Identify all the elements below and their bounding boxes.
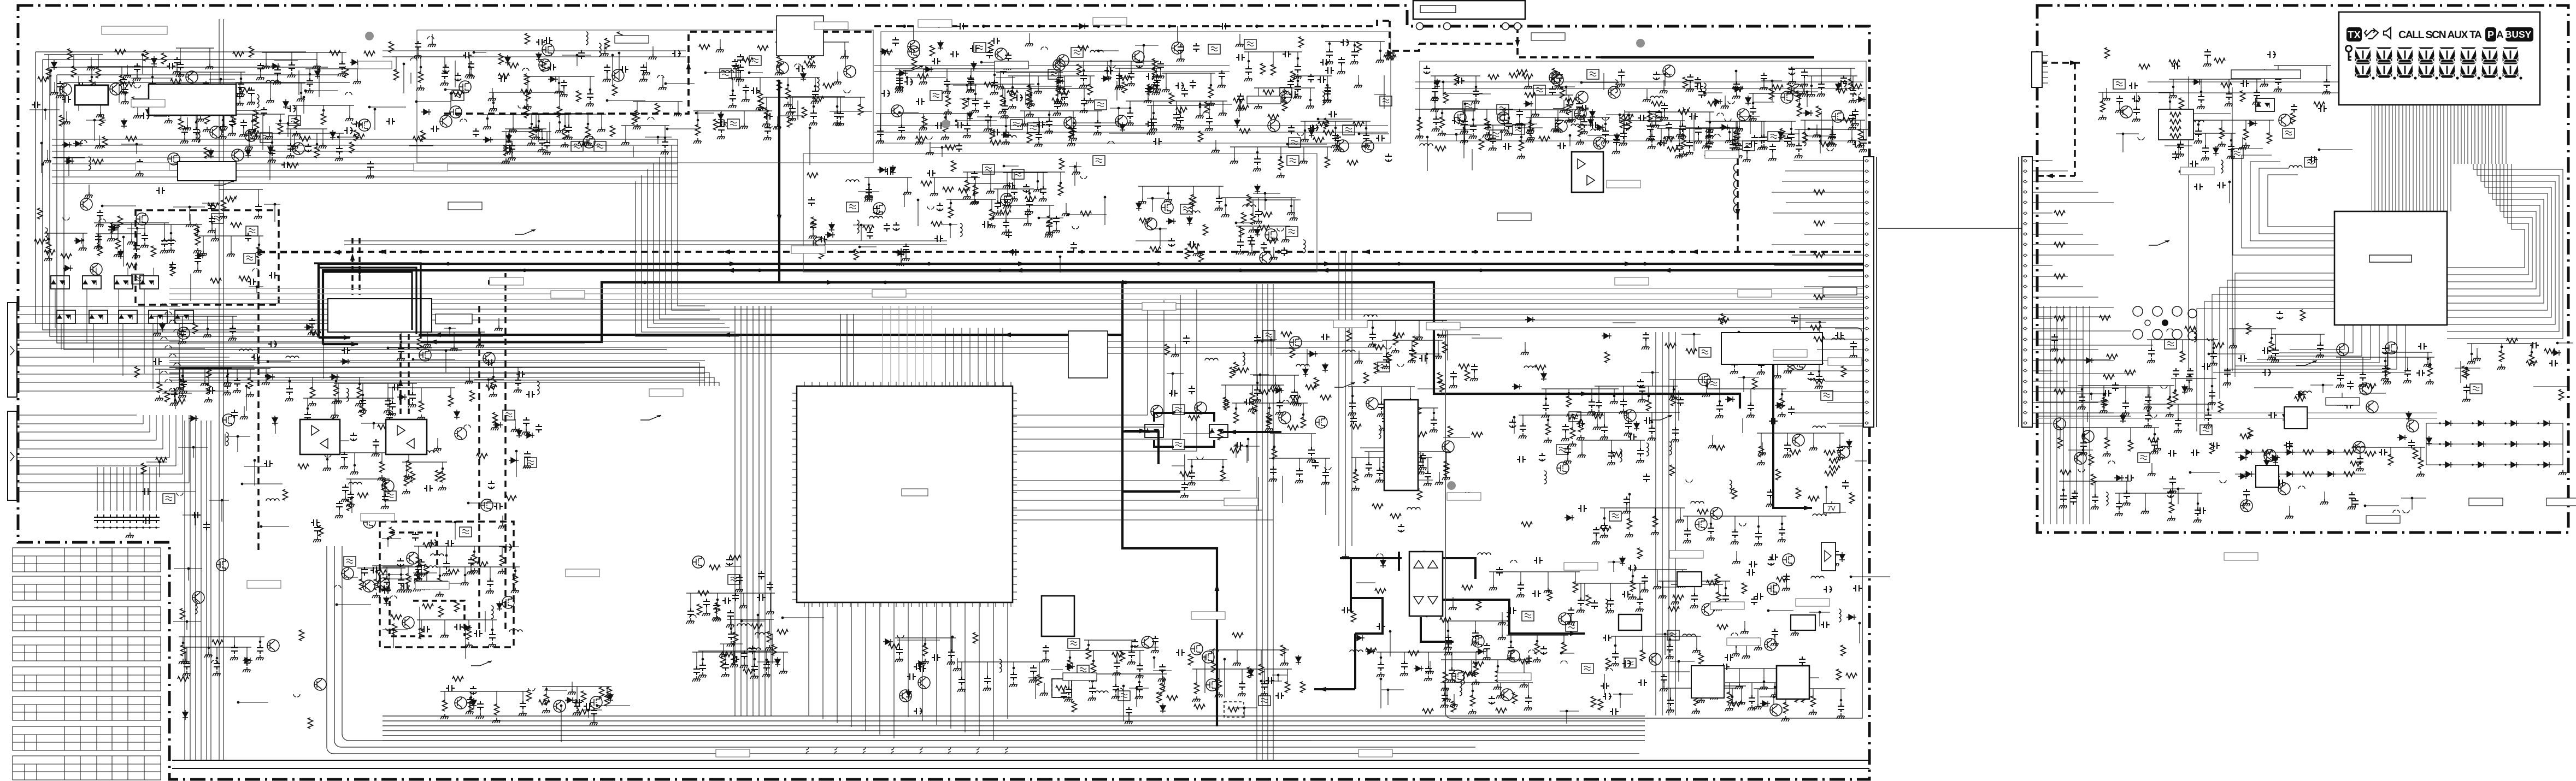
filter FF34 <box>132 274 144 284</box>
wire net rail N86 <box>1147 105 1214 106</box>
resistor R345 <box>1374 363 1379 374</box>
resistor R189 <box>1444 92 1449 103</box>
junction node N276 <box>1259 374 1262 376</box>
resistor R195 <box>1678 110 1689 115</box>
ground <box>1025 209 1033 214</box>
resistor R297 <box>1272 448 1277 459</box>
ground <box>1236 249 1244 255</box>
ground <box>786 109 794 115</box>
capacitor C81 electrolytic <box>732 59 738 68</box>
resistor R81 <box>804 61 815 66</box>
ground <box>1848 125 1856 130</box>
resistor R116 <box>990 128 995 139</box>
capacitor C236 <box>1658 140 1667 146</box>
wire MCU bottom pins <box>2213 325 2406 372</box>
ground <box>1705 127 1714 132</box>
resistor R325 <box>1354 472 1358 483</box>
capacitor C2 <box>269 147 275 156</box>
transistor Q25 <box>1064 117 1076 129</box>
filter FF41 <box>983 164 995 174</box>
wire stub net N174 <box>1736 71 1737 88</box>
resistor R285 <box>1189 244 1199 249</box>
ground <box>1236 42 1244 47</box>
transistor Q IF bus 1 <box>908 40 920 52</box>
ground <box>1565 117 1573 123</box>
resistor R96 <box>1069 127 1074 138</box>
ground <box>236 100 244 106</box>
resistor R326 <box>1373 345 1384 350</box>
wire net rail N135 <box>1705 121 1766 122</box>
wire stub net N203 <box>261 526 289 527</box>
ground <box>1138 199 1146 204</box>
capacitor C288 <box>515 377 521 386</box>
transistor Q16 <box>440 115 452 127</box>
ground <box>170 400 178 406</box>
capacitor C77 <box>751 87 760 94</box>
resistor R122 <box>1176 108 1187 113</box>
wire CPU top gray feeds <box>883 306 932 386</box>
resistor R276 <box>1080 211 1091 216</box>
svg-text:CALL SCN AUX TA: CALL SCN AUX TA <box>2398 29 2482 41</box>
connector pigtail J40 <box>464 425 470 428</box>
ground <box>292 131 301 137</box>
node dashed arrow up <box>686 62 691 69</box>
wire stub net N59 <box>666 83 695 84</box>
inductor L12 <box>1650 96 1663 98</box>
resistor R204 <box>196 234 201 245</box>
capacitor C126 <box>986 50 993 58</box>
capacitor C57 electrolytic <box>443 64 449 73</box>
capacitor C318 <box>1004 193 1011 202</box>
resistor R83 <box>699 45 710 50</box>
resistor R279 <box>958 188 969 193</box>
wire stub net N82 <box>705 72 740 73</box>
resistor R162 <box>1567 104 1572 115</box>
ground <box>223 390 231 395</box>
wire stub net N65 <box>667 128 699 129</box>
ground <box>1171 352 1179 357</box>
junction node N101 <box>941 146 944 149</box>
wire net rail N2 <box>236 82 305 84</box>
capacitor C231 <box>1695 77 1701 86</box>
wire net rail N259 <box>1249 199 1298 200</box>
capacitor C315 <box>342 484 349 493</box>
ground <box>273 79 281 85</box>
resistor R90 <box>777 80 782 91</box>
ground <box>358 407 367 413</box>
capacitor C197 <box>1433 116 1439 125</box>
resistor R72 <box>605 38 610 49</box>
junction node N111 <box>1143 44 1145 47</box>
ground <box>963 133 971 138</box>
diode D58 <box>74 238 84 244</box>
ground <box>440 80 449 86</box>
wire net rail N137 <box>1657 128 1734 129</box>
capacitor C10 <box>193 127 199 135</box>
wire net rail N267 <box>1221 384 1284 386</box>
resistor R54 <box>499 54 504 64</box>
capacitor C333 electrolytic <box>873 206 880 215</box>
resistor R324 <box>1393 334 1398 345</box>
junction node N38 <box>287 122 290 125</box>
capacitor C157 <box>1332 133 1339 141</box>
capacitor C409 <box>1684 528 1691 537</box>
capacitor C302 <box>341 452 348 460</box>
capacitor C187 <box>1461 119 1468 127</box>
wire net rail N47 <box>392 56 474 57</box>
wire top band long horizontals 3 <box>1415 82 1863 88</box>
capacitor C IF bus <box>957 23 966 29</box>
capacitor C62 <box>415 41 421 50</box>
ground <box>62 119 70 125</box>
capacitor C188 <box>1505 121 1512 129</box>
wire net rail N213 <box>388 387 455 388</box>
connector pigtail J39 <box>253 356 260 358</box>
wire stub net N222 <box>275 418 276 434</box>
ground <box>1817 91 1825 97</box>
ground <box>1555 84 1563 90</box>
ground <box>1337 69 1345 74</box>
ground <box>335 156 343 161</box>
node dashed bus arrow left <box>1007 250 1014 255</box>
capacitor C207 <box>1501 117 1508 126</box>
capacitor C408 <box>1748 403 1754 411</box>
resistor R172 <box>1708 102 1719 106</box>
node bus arrow right <box>1324 262 1331 267</box>
capacitor C287 <box>389 401 396 410</box>
ground <box>1760 144 1768 150</box>
junction node N164 <box>1463 128 1466 131</box>
capacitor C330 <box>810 221 816 230</box>
ground <box>1362 143 1370 148</box>
wire net rail N9 <box>44 54 103 55</box>
capacitor C262 <box>169 262 176 270</box>
resistor R269 <box>863 226 874 230</box>
capacitor C368 <box>1183 335 1190 344</box>
transistor Q10 <box>539 59 551 71</box>
transistor Q IF bus 2 <box>1172 42 1184 54</box>
wire heavy snake opamp shield <box>390 532 464 636</box>
ground <box>1408 358 1416 363</box>
ground <box>1254 104 1262 109</box>
ground <box>1003 203 1011 209</box>
resistor R94 <box>1088 84 1093 95</box>
ground <box>1153 86 1161 92</box>
capacitor C84 <box>764 113 773 120</box>
diode D22 <box>536 52 542 62</box>
capacitor C366 <box>1312 460 1319 469</box>
node bus arrow left <box>434 333 441 338</box>
capacitor C96 <box>1061 91 1068 100</box>
ground <box>1783 452 1791 458</box>
filter FF35 <box>246 226 258 236</box>
junction node N102 <box>966 84 969 87</box>
junction node bus TX <box>884 281 887 284</box>
wire stub net N227 <box>388 347 432 348</box>
wire stub net N189 <box>202 203 220 204</box>
ground <box>345 116 354 121</box>
ground <box>1025 41 1033 46</box>
resistor R12 <box>231 116 236 127</box>
filter FF33 <box>244 253 256 263</box>
ground <box>1219 110 1227 116</box>
wire net rail N133 <box>1749 93 1804 94</box>
resistor R152 <box>1803 132 1808 143</box>
ground <box>943 88 951 94</box>
resistor R5 <box>90 80 95 91</box>
wire dashed vertical panel <box>2074 63 2076 176</box>
wire stub net N15 <box>319 69 320 97</box>
transistor Q34 <box>1551 74 1563 86</box>
ground <box>560 92 568 97</box>
diode D47 <box>1713 99 1722 104</box>
resistor R86 <box>759 100 764 111</box>
ground <box>1807 92 1815 97</box>
ground <box>534 127 543 132</box>
wire rounded corner loops bottom-left <box>327 546 1639 754</box>
ground <box>1757 460 1765 465</box>
resistor R281 <box>1251 214 1256 224</box>
wire net rail N120 <box>1293 75 1332 76</box>
ground <box>265 134 273 139</box>
ground <box>85 192 93 198</box>
filter FF38 <box>525 458 537 468</box>
inductor L15 <box>1420 144 1433 146</box>
ground <box>876 138 884 144</box>
wire stub net N302 <box>1393 458 1395 489</box>
ground <box>658 85 667 90</box>
ground <box>133 113 142 119</box>
resistor R219 <box>170 265 175 276</box>
resistor R320 <box>1189 416 1199 421</box>
capacitor C194 <box>1679 123 1686 132</box>
ground <box>206 84 214 90</box>
capacitor C249 <box>1624 122 1630 131</box>
transistor Q53 <box>363 516 375 528</box>
wire net rail N97 <box>944 84 1034 85</box>
wire stub net N275 <box>1325 477 1326 515</box>
diode D73 <box>896 250 905 256</box>
junction node N64 <box>576 54 579 57</box>
capacitor C85 <box>718 120 727 126</box>
resistor R23 <box>78 98 89 103</box>
capacitor C39 <box>77 82 85 89</box>
capacitor C401 <box>1620 399 1627 407</box>
diode D37 <box>1309 128 1314 138</box>
junction node N230 <box>487 378 490 381</box>
resistor R139 <box>1318 122 1329 127</box>
junction node N181 <box>1806 91 1809 93</box>
resistor R275 <box>811 217 816 228</box>
connector pigtail J24 <box>1297 133 1304 135</box>
capacitor C271 <box>180 378 187 387</box>
ground <box>661 149 669 155</box>
resistor R224 <box>142 463 146 474</box>
ground <box>762 121 771 127</box>
wire stub net N262 <box>1236 222 1254 223</box>
ground <box>1415 133 1424 139</box>
junction node N233 <box>373 422 375 425</box>
ground <box>252 133 260 139</box>
ground <box>586 101 594 106</box>
capacitor C324 <box>1011 186 1018 195</box>
ground <box>423 342 431 347</box>
capacitor C80 <box>796 66 805 72</box>
ground <box>1551 126 1559 132</box>
resistor R28 <box>60 115 64 126</box>
resistor R18 <box>287 163 298 168</box>
ground <box>1676 132 1684 137</box>
diode D7 <box>51 60 57 70</box>
inductor L11 <box>1322 92 1325 105</box>
transistor Q45 <box>90 263 102 275</box>
ground <box>136 171 144 176</box>
capacitor C41 <box>662 139 668 148</box>
resistor R80 <box>787 116 792 127</box>
transistor Q33 <box>1593 137 1605 149</box>
ground <box>1601 138 1609 144</box>
capacitor C406 <box>1837 445 1843 453</box>
node bus arrow right <box>827 280 834 285</box>
node dashed arrow down <box>1736 209 1740 216</box>
resistor R208 <box>34 239 45 244</box>
junction node bus TX <box>1124 281 1127 284</box>
ground <box>1254 218 1262 224</box>
capacitor C42 <box>544 140 550 149</box>
capacitor C72 <box>834 110 840 119</box>
ground <box>527 140 536 146</box>
resistor R306 <box>1180 472 1191 477</box>
wire left fan to connector J10 <box>17 306 254 391</box>
inductor L8 <box>817 78 819 91</box>
transistor Q6 <box>110 83 122 95</box>
diode D31 <box>971 61 977 71</box>
junction node N42 <box>136 143 138 146</box>
wire CPU left nested bundle <box>169 363 719 386</box>
ground <box>192 137 200 142</box>
wire stub net N162 <box>1465 104 1466 131</box>
connector pigtail J18 <box>1041 47 1048 50</box>
resistor R209 <box>210 279 221 283</box>
resistor R66 <box>542 61 546 72</box>
capacitor C358 <box>1277 400 1283 409</box>
capacitor C369 <box>1254 335 1261 344</box>
transistor Q48 <box>178 327 190 339</box>
ground <box>896 84 904 90</box>
wire net rail N123 <box>1254 87 1315 88</box>
diode D70 <box>509 458 519 463</box>
ground <box>864 193 873 198</box>
wire net rail N236 <box>970 183 1012 184</box>
wire stub net N153 <box>1519 127 1543 128</box>
resistor R288 <box>1139 218 1150 223</box>
capacitor C319 <box>1040 186 1046 195</box>
ground <box>438 485 446 490</box>
ground <box>509 127 517 133</box>
diode D80 <box>1187 216 1192 226</box>
connector pigtail J23 <box>1250 96 1256 99</box>
ground <box>505 149 513 155</box>
wire stub net N77 <box>696 113 714 114</box>
transistor Q17 <box>777 62 789 74</box>
capacitor C277 <box>171 388 178 397</box>
junction node N152 <box>1819 135 1822 138</box>
wire stub net N234 <box>468 502 499 504</box>
capacitor C223 <box>1613 137 1620 145</box>
resistor R252 <box>410 471 415 482</box>
ground <box>285 396 293 401</box>
connector pigtail J25 <box>1725 119 1731 121</box>
ground <box>233 388 241 393</box>
capacitor C163 <box>1287 79 1294 87</box>
junction node N31 <box>44 109 47 111</box>
capacitor C342 electrolytic <box>893 222 899 231</box>
ground <box>341 496 349 502</box>
ground <box>179 388 187 394</box>
wire stub net N22 <box>262 115 263 150</box>
ground <box>416 85 425 91</box>
resistor R149 <box>1291 71 1296 82</box>
ground <box>1460 128 1468 134</box>
resistor R327 <box>1444 465 1449 476</box>
capacitor C174 electrolytic <box>1385 153 1392 162</box>
ground <box>1290 399 1298 405</box>
ground <box>355 401 363 406</box>
ground <box>1193 251 1201 256</box>
inductor L41 <box>1379 425 1381 439</box>
ground <box>1416 469 1425 475</box>
capacitor C360 <box>1296 468 1303 477</box>
ground <box>1307 457 1315 463</box>
ground <box>1575 113 1583 119</box>
ground <box>1391 471 1399 476</box>
capacitor C300 <box>526 391 535 398</box>
filter FF29 <box>1533 85 1545 95</box>
wire bottom staircase bundle <box>383 716 1645 741</box>
capacitor C359 <box>1270 466 1277 475</box>
capacitor C31 <box>367 161 374 170</box>
resistor R11 <box>205 113 210 124</box>
wire net rail N198 <box>155 369 255 370</box>
capacitor C178 <box>1325 85 1331 94</box>
wire stub net N160 <box>1820 141 1821 152</box>
resistor R78 <box>758 91 763 102</box>
wire net rail N52 <box>489 92 564 93</box>
wire CPU right bundle <box>1013 289 1197 451</box>
wire net rail N7 <box>176 48 214 49</box>
resistor R243 <box>493 412 498 423</box>
inductor L25 <box>286 356 299 358</box>
ground <box>262 63 270 69</box>
wire dashed loop opamp cluster <box>380 522 514 647</box>
filter FF16 <box>974 43 986 52</box>
inductor L39 <box>1205 358 1218 360</box>
capacitor C IF bus 2 <box>1220 23 1228 29</box>
capacitor C169 <box>1237 93 1244 102</box>
ground <box>1321 480 1330 485</box>
resistor R249 <box>404 315 415 320</box>
resistor R293 <box>1203 224 1208 235</box>
capacitor C225 <box>1749 140 1757 147</box>
diode D24 <box>801 72 806 81</box>
capacitor C103 <box>1150 116 1157 125</box>
capacitor C51 <box>386 118 395 125</box>
transistor Q47 <box>136 213 148 225</box>
resistor R112 <box>1077 64 1082 75</box>
capacitor C349 <box>1216 196 1222 204</box>
capacitor C347 <box>1025 209 1031 217</box>
ground <box>402 489 410 494</box>
